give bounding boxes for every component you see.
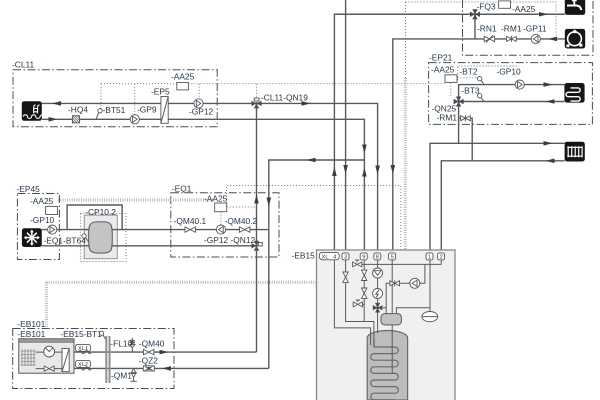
enclosure box hot-water section (dash-dot, cut at top) — [463, 0, 594, 55]
arrow down on cold water riser — [343, 165, 348, 174]
wire pin3 cold feed to tank — [346, 260, 374, 347]
wire cold water (pin 3 up to top edge) — [345, 0, 347, 253]
valve QN25 (shunt 3-way) — [454, 97, 464, 107]
valve QM40.1 — [185, 227, 195, 232]
dotted control wire AA25(CL11) bus to EP21 — [101, 83, 177, 85]
shut-off valve pin9 upper — [362, 270, 367, 280]
dotted control wire AA25(EP21) to BT2 — [457, 77, 477, 79]
drain valve QM1 — [130, 368, 137, 381]
svg-text:-GP11: -GP11 — [523, 24, 547, 34]
wire buffer bypass bridge over CP10.2 — [67, 205, 122, 230]
arrow left on cooling distribution line — [307, 158, 316, 163]
svg-text:1: 1 — [428, 254, 431, 260]
svg-text:-AA25: -AA25 — [431, 65, 455, 75]
sensor BT51 — [96, 109, 102, 120]
svg-text:-GP12: -GP12 — [189, 107, 214, 117]
pin tag XL1 — [76, 344, 91, 352]
check valve RM1 (circulation) — [507, 36, 517, 42]
svg-text:-GP10: -GP10 — [497, 67, 522, 77]
arrow up on pin9 riser — [362, 168, 367, 177]
dotted control frame FQ3 group — [406, 2, 557, 39]
svg-text:-EQ1: -EQ1 — [172, 184, 192, 194]
controller AA25 (FQ3 group) — [499, 1, 511, 8]
check valve (charge line) — [390, 280, 400, 286]
wire pin8 drop to QN10 — [377, 260, 379, 303]
controller AA25 (EQ1) — [215, 203, 227, 212]
wall pass-through — [106, 336, 109, 383]
svg-text:-EB15: -EB15 — [292, 251, 316, 261]
wire RM1 bypass stub — [459, 118, 473, 161]
pin tag XL 4 — [319, 252, 339, 260]
communication cable to EB15 (railroad) — [404, 78, 407, 250]
arrow to tap — [539, 12, 548, 17]
safety valve FL10 — [130, 338, 135, 352]
svg-text:-GP9: -GP9 — [137, 105, 157, 115]
arrow down on circulation riser — [391, 165, 396, 174]
pin tag 8 — [374, 253, 381, 261]
arrow right on EB101 supply — [160, 350, 169, 355]
heat exchanger EP5 — [161, 97, 168, 124]
svg-text:9: 9 — [362, 254, 365, 260]
outdoor unit body — [19, 339, 74, 373]
refrigerant circuit wires — [36, 352, 62, 369]
svg-text:-EB101: -EB101 — [17, 329, 45, 339]
filterball QZ2 — [143, 366, 154, 371]
wire QN10 side stub — [383, 307, 387, 309]
svg-text:-AA25: -AA25 — [30, 196, 54, 206]
enclosure box EQ1 (cooling circuit) — [171, 193, 279, 257]
svg-text:-QM1: -QM1 — [111, 371, 132, 381]
wire EP21 supply (QN25 up, through GP10 to radiator 1) — [459, 85, 565, 102]
arrow from radiator 2 — [546, 159, 555, 164]
radiator 1 icon (floor coil) — [564, 83, 584, 103]
svg-text:-EP45: -EP45 — [17, 184, 41, 194]
svg-text:5: 5 — [391, 254, 394, 260]
pool icon — [22, 101, 42, 121]
flex hose XL2 — [79, 367, 92, 370]
arrow to radiator 2 — [544, 141, 553, 146]
valve QM40.2 — [240, 227, 250, 232]
wire climate system return (radiator 2 to pin 2 riser) — [441, 161, 564, 253]
svg-text:-QM40.1: -QM40.1 — [174, 216, 207, 226]
valve QN12 (3-way) — [252, 241, 263, 251]
svg-text:-CP10.2: -CP10.2 — [85, 207, 116, 217]
wire hot water circulation (pin 5 up, to GP11 line) — [393, 39, 565, 253]
svg-text:8: 8 — [376, 254, 379, 260]
wire EB101 return line (drop riser to outdoor unit) — [74, 367, 269, 369]
wire pin1 riser inside box — [429, 260, 431, 312]
tap icon (hot water) — [565, 0, 585, 15]
pin tag 3 — [342, 253, 349, 261]
wire cooling distribution line (junction to EQ1 drop) — [269, 160, 365, 368]
dotted control wire to BT51 — [100, 84, 102, 109]
pin tag 9 — [360, 253, 367, 261]
sensor EQ1-BT64 — [82, 234, 89, 242]
dotted control wire to GP9 — [134, 84, 136, 115]
svg-text:-FL10: -FL10 — [110, 338, 132, 348]
pump GP10 (EP45) — [48, 225, 57, 234]
arrow up on QN19-QN12 riser — [254, 195, 259, 204]
controller AA25 (EP45) — [46, 206, 58, 214]
enclosure box EP21 (climate system 2) — [429, 63, 593, 125]
wire QN10 to tank — [377, 312, 379, 333]
pump GP1 (charge pump) — [373, 268, 383, 278]
flex hose XL1 — [79, 350, 92, 353]
svg-text:-BT3: -BT3 — [461, 86, 479, 96]
svg-text:-RM1: -RM1 — [437, 113, 458, 123]
wire check-valve branch — [386, 264, 425, 313]
svg-text:-EB101: -EB101 — [17, 319, 45, 329]
svg-text:-AA25: -AA25 — [204, 194, 228, 204]
wire cooling return line 2 (EP45 through CP10.2 to QN12) — [42, 245, 253, 247]
pin tag 5 — [389, 253, 396, 261]
svg-text:-CL11-QN19: -CL11-QN19 — [261, 93, 308, 103]
expansion valve — [44, 366, 54, 371]
svg-text:-GP10: -GP10 — [30, 215, 55, 225]
arrow left on circulation line — [548, 37, 557, 42]
pump GP12 (CL11) — [194, 99, 203, 108]
buffer vessel CP10.2 — [89, 222, 113, 253]
wire pin2 stub — [440, 260, 442, 265]
indoor unit EB15 box — [317, 250, 456, 400]
svg-text:-EQ1-BT64: -EQ1-BT64 — [44, 236, 87, 246]
controller AA25 (CL11) — [177, 83, 189, 90]
svg-text:-QM40.2: -QM40.2 — [225, 216, 258, 226]
dotted control wire AA25(EQ1) to QN12 — [227, 206, 257, 208]
sensor BT3 — [478, 94, 485, 102]
wire FQ3 cold feed stub — [474, 14, 476, 39]
wire DHW supply (pin 4 up to FQ3 and tap) — [334, 14, 564, 253]
pump (charge circuit) — [410, 278, 420, 288]
pump GP10 (EP21) — [515, 80, 524, 89]
svg-text:-RN1: -RN1 — [477, 24, 497, 34]
wire QN12 drop to EB101 supply — [256, 246, 258, 352]
svg-text:-GP12: -GP12 — [204, 235, 229, 245]
vessel dome — [381, 314, 402, 325]
valve QM40 — [144, 349, 154, 354]
svg-text:-FQ3: -FQ3 — [477, 2, 496, 12]
wire pin5 drop to vessel dome — [391, 260, 393, 314]
hot water tank — [367, 331, 407, 400]
svg-text:4: 4 — [333, 254, 336, 260]
tank coil (serpentine) — [371, 339, 399, 400]
wire QN25 drop to climate supply — [458, 102, 460, 144]
dotted control wire to GP12 — [198, 84, 200, 99]
wire pool supply line (pool icon to EP5/GP12/QN19, down to pin 8) — [42, 103, 378, 253]
svg-text:-QZ2: -QZ2 — [139, 356, 158, 366]
arrow down on CL11/EP5 feed riser — [362, 145, 367, 154]
pin tag XL2 — [76, 360, 91, 368]
svg-text:-AA25: -AA25 — [512, 4, 536, 14]
pin tag 1 — [426, 253, 433, 261]
pump GP9 — [130, 115, 139, 124]
wire climate system supply (pin 1 riser to radiator 2) — [430, 143, 565, 253]
svg-text:-QN12: -QN12 — [231, 235, 256, 245]
svg-text:-BT51: -BT51 — [103, 105, 126, 115]
arrow out of pool (return) — [49, 117, 58, 122]
svg-text:-AA25: -AA25 — [171, 72, 195, 82]
arrow up on DHW riser — [332, 167, 337, 176]
svg-text:-HQ4: -HQ4 — [68, 105, 88, 115]
wire pin9 drop — [363, 260, 365, 322]
filter HQ4 — [72, 116, 79, 123]
shut-off valve pin9 lower — [362, 288, 367, 298]
evaporator coil (grid) — [21, 349, 36, 366]
controller AA25 (EP21) — [445, 75, 457, 83]
arrow to radiator 1 — [544, 82, 553, 87]
arrow left on EB101 return — [162, 366, 171, 371]
svg-text:-EP21: -EP21 — [429, 53, 453, 63]
arrow down on pin8 riser — [375, 166, 380, 175]
svg-text:-BT2: -BT2 — [459, 67, 477, 77]
wire dome to pin1 branch — [396, 308, 430, 314]
svg-text:-EB15-BT1: -EB15-BT1 — [60, 329, 102, 339]
svg-text:-RM1: -RM1 — [501, 24, 522, 34]
shuttle valve QN10 (4-way) — [373, 303, 383, 313]
dotted control wire AA25(EQ1) to EB15 — [227, 186, 401, 250]
svg-text:-CL11: -CL11 — [12, 60, 35, 70]
drain valve stub QM (pin9) — [353, 300, 364, 307]
wire cooling supply line 1 (EP45 through CP10.2 to EQ1 drop junction) — [42, 229, 269, 231]
check valve RM1 (EP21) — [461, 115, 471, 121]
compressor GQ10 — [44, 346, 55, 357]
electric heater indicator — [373, 289, 383, 299]
expansion vessel — [422, 312, 438, 322]
shut-off valve pin3 — [343, 272, 348, 282]
svg-text:2: 2 — [440, 254, 443, 260]
wire dome down into tank — [391, 325, 393, 374]
circulation icon — [565, 29, 585, 49]
sensor BT2 — [478, 76, 485, 84]
snowflake icon (cooling) — [22, 228, 42, 247]
wire pool return line (pool icon to HQ4/GP9/EP5, corner to junction, down to pin 9) — [42, 119, 365, 253]
dotted control wire AA25(EP21) to QN25 — [450, 83, 452, 97]
dotted control wire to QN19 — [256, 84, 258, 98]
pin tag 2 — [438, 253, 445, 261]
dotted control wire AA25(EQ1) to GP12 — [220, 212, 222, 225]
valve RN1 (trim) — [484, 35, 494, 42]
mixing valve FQ3 — [470, 9, 480, 19]
arrow to pin8 (rightward after QN19) — [302, 101, 311, 106]
dotted box CP10.2 — [80, 214, 126, 262]
enclosure box CL11 (pool system) — [13, 70, 217, 127]
svg-text:-QM40: -QM40 — [139, 338, 165, 348]
enclosure box EB101 (outdoor unit) — [13, 329, 174, 389]
svg-text:-EP5: -EP5 — [151, 87, 170, 97]
communication cable drop to EB101 (railroad) — [45, 282, 48, 328]
svg-text:3: 3 — [344, 254, 347, 260]
arrow down on EQ1 feed drop — [267, 198, 272, 207]
wire pin4 to tank coil — [334, 260, 370, 345]
wire internal header (QM valve to pin2 riser) — [353, 263, 442, 265]
enclosure box EP45 (cooling) — [17, 194, 59, 260]
dotted control wire AA25 drop to FQ3 column — [405, 2, 407, 78]
drain valve stub QM (header) — [353, 260, 362, 267]
valve QN19 (3-way) — [252, 98, 262, 108]
communication cable AA25 to EB101 (railroad) — [46, 281, 316, 284]
wire QN19 to QN12 riser — [256, 103, 258, 245]
pump GP12 (EQ1) — [216, 225, 225, 234]
svg-text:XL: XL — [322, 254, 329, 260]
wire EB101 supply line (outdoor unit to QN12 riser) — [74, 351, 257, 353]
wire EP21 return (radiator 1 back to QN25) — [459, 101, 565, 103]
condenser heat exchanger — [62, 348, 69, 371]
dotted control frame EP21 group — [458, 66, 519, 80]
arrow from radiator 1 — [546, 99, 555, 104]
radiator 2 icon (radiator) — [565, 142, 585, 162]
communication cable AA25(EP45) to AA25(EQ1) (railroad) — [58, 198, 215, 201]
arrow into pool (supply) — [52, 101, 61, 106]
pump GP11 — [531, 34, 540, 43]
sensor EB15-BT1 — [99, 331, 105, 339]
panel CP10.2 unit — [84, 215, 117, 259]
